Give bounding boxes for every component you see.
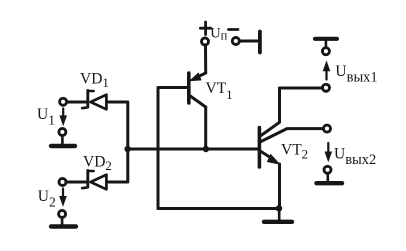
ground U2 [51,218,76,227]
arrow U2 (pointing down) [59,189,67,207]
input terminal U1 (upper circle) [60,98,67,105]
arrow U1 (pointing down) [59,109,67,127]
terminal circle U1 (lower) [59,129,66,136]
wire supply - to return bar [240,40,259,43]
wire supply + down to VT1 emitter [204,45,207,73]
output 2 lower terminal circle [324,166,331,173]
arrow Uout1 (pointing up) [323,60,331,79]
wire U1 terminal to VD1 cathode [67,101,86,104]
label U1 [37,106,55,128]
label VD2 [83,154,112,174]
label VT2 [281,142,308,162]
svg-text:VD1: VD1 [80,71,109,91]
supply terminal circle (+) [202,38,209,45]
label VD1 [80,71,109,91]
plus sign of supply [200,22,210,35]
ground under output 2 [317,174,343,184]
arrow Uout2 (pointing down) [325,143,333,162]
top return bar symbol above output 1 [315,39,337,48]
svg-text:Uвых2: Uвых2 [334,145,376,168]
svg-text:VT2: VT2 [281,142,308,162]
output 1 upper terminal circle [322,48,329,55]
label Un (supply) [210,26,227,43]
wire bottom rail [158,207,279,210]
svg-text:VD2: VD2 [83,154,112,174]
svg-text:U2: U2 [38,188,56,210]
output 2 upper terminal circle [324,125,331,132]
wire VT2 collector to output 1 terminal [280,87,323,90]
svg-text:U1: U1 [37,106,55,128]
minus sign of supply [229,28,239,31]
diode VD2 [82,170,106,189]
wire VD2 anode to node column [106,149,127,182]
ground U1 [51,136,75,146]
transistor VT2 [259,88,322,209]
supply return bar [258,32,262,53]
input terminal U2 (upper circle) [59,179,66,186]
transistor VT1 [189,72,206,149]
output 1 lower terminal circle [323,84,330,91]
junction dot VT1 collector to node wire [203,146,209,152]
svg-text:Uвых1: Uвых1 [335,63,377,86]
label Uout1 [335,63,377,86]
terminal circle U2 (lower) [59,211,66,218]
svg-text:VT1: VT1 [206,80,233,102]
ground under VT2 [264,209,292,222]
junction dot VT2 emitter to rail [276,205,282,211]
svg-text:Uп: Uп [210,26,227,43]
wire U2 terminal to VD2 cathode [67,181,87,184]
supply terminal circle (-) [232,38,239,45]
wire VD1 anode to node column [106,102,127,149]
wire node A to VT2 base [128,148,258,151]
label U2 [38,188,56,210]
wire VT1 base down to bottom rail [158,88,187,209]
diode VD1 [82,90,106,109]
label Uout2 [334,145,376,168]
label VT1 [206,80,233,102]
junction node A (diode common node) [124,146,130,152]
